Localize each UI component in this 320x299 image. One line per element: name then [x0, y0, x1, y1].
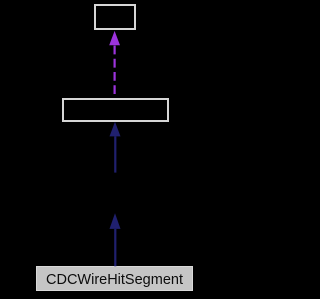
inheritance arrow 1: middle box from hidden intermediate node [110, 122, 121, 173]
node: top base-class box (empty) [94, 4, 136, 30]
template-relation arrow: dashed darkorchid, middle box to top box [109, 31, 120, 97]
node: middle class box (empty) [62, 98, 168, 123]
inheritance arrow 2: hidden intermediate node from CDCWireHitSegment [110, 213, 121, 266]
node: CDCWireHitSegment (current class, gray fill) [36, 266, 193, 291]
